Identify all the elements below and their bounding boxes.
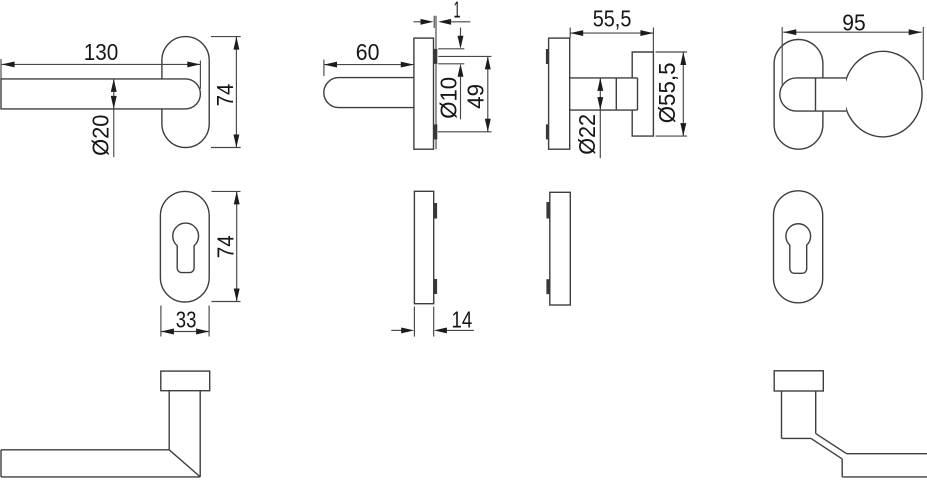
grip top edge fig10 — [847, 453, 927, 455]
rosette side rect fig7 — [550, 192, 571, 305]
lever side view fig2 — [324, 78, 414, 108]
grip left edge fig10 — [841, 459, 843, 477]
lever bar fig1 — [1, 79, 200, 109]
extension line 74 top fig5 — [212, 190, 241, 192]
knob neck fill fig4 — [780, 78, 846, 111]
svg-text:14: 14 — [452, 307, 473, 333]
arrowhead 74 down — [233, 135, 239, 148]
arrowhead d55,5 up — [680, 52, 686, 65]
dimension 1 left line — [414, 21, 422, 23]
lever bar bottom edge fig9 — [1, 476, 200, 478]
dimension line 49 — [487, 56, 489, 131]
neck left line fig9 — [168, 391, 170, 450]
arrowhead 74 fig5 up — [234, 191, 240, 204]
arrowhead 74 up — [233, 37, 239, 50]
svg-text:74: 74 — [212, 235, 238, 258]
svg-text:74: 74 — [212, 84, 238, 107]
dimension line 74 fig1 — [235, 37, 237, 148]
neck divider fig3 — [615, 78, 617, 110]
dimension line diameter 20 — [113, 79, 115, 157]
arrowhead 49 up — [485, 56, 491, 69]
rosette top rect fig9 — [161, 371, 210, 391]
svg-text:49: 49 — [462, 84, 488, 109]
neck right line fig9 — [199, 391, 201, 477]
screw tab fig2 top — [434, 49, 438, 64]
knob neck bottom line fig3 — [570, 109, 638, 111]
d10 upper arrow shaft — [460, 28, 462, 37]
svg-text:95: 95 — [842, 10, 865, 36]
dimension 14 right line — [447, 329, 474, 331]
extension line right of dim 130 — [199, 61, 201, 89]
extension line d10 bottom — [438, 63, 464, 65]
neck right line fig10 — [815, 391, 817, 434]
arrowhead d10 up — [458, 64, 464, 77]
screw tab fig6 bottom — [434, 279, 437, 294]
arrowhead 74 fig5 down — [234, 289, 240, 302]
extension line for dim 1 — [433, 16, 435, 28]
extension line bottom of dim 74 fig1 — [211, 147, 241, 149]
extension line left dim 60 — [323, 60, 325, 77]
grip bottom edge fig10 — [842, 476, 927, 478]
arrowhead 1 right — [438, 19, 451, 25]
screw tab fig3 bottom — [546, 124, 549, 139]
neck left line fig10 — [781, 391, 783, 438]
arrowhead d22 down — [597, 97, 603, 110]
svg-text:Ø55,5: Ø55,5 — [654, 63, 680, 124]
arrowhead 33 left — [161, 329, 174, 335]
rosette side rect fig3 — [549, 38, 570, 149]
extension line d55,5 top — [656, 51, 688, 53]
extension line 33 left — [160, 306, 162, 337]
arrowhead 95 right — [909, 29, 922, 35]
dimension line 130 — [2, 63, 201, 65]
arrowhead 55,5 left — [570, 30, 583, 36]
rosette side rect fig6 — [414, 191, 433, 303]
escutcheon oval fig5 — [160, 191, 209, 302]
extension line 95 left — [781, 27, 783, 85]
knob side rect fig3 — [632, 52, 653, 136]
rosette top rect fig10 — [774, 371, 823, 391]
arrowhead 1 left — [421, 19, 434, 25]
svg-text:1: 1 — [454, 0, 461, 22]
knob neck outline fig4 — [780, 78, 846, 111]
arrowhead 14 right — [434, 327, 447, 333]
arrowhead d20 up — [111, 79, 117, 92]
crank lower diagonal fig10 — [811, 438, 842, 459]
extension line 49 bottom — [438, 131, 492, 133]
dimension line 33 — [161, 331, 209, 333]
svg-text:Ø20: Ø20 — [88, 115, 114, 156]
rosette oval fig4 — [774, 40, 823, 150]
extension line 74 bottom fig5 — [212, 301, 241, 303]
arrowhead 55,5 right — [640, 30, 653, 36]
lever bar top edge fig9 — [1, 449, 169, 451]
extension line d55,5 bottom — [656, 135, 688, 137]
extension line 49 top — [438, 55, 491, 57]
dimension 14 left line — [391, 329, 401, 331]
arrowhead d10 down — [458, 36, 464, 49]
arrowhead 33 right — [196, 329, 209, 335]
dimension line 74 fig5 — [236, 191, 238, 301]
knob ball fig4 — [844, 51, 922, 137]
d10 lower arrow shaft — [460, 76, 462, 119]
svg-text:Ø10: Ø10 — [435, 77, 461, 119]
d22 dimension line — [599, 78, 601, 158]
dimension line 95 — [783, 31, 921, 33]
collar right edge fig3 — [637, 78, 639, 110]
arrowhead d55,5 down — [680, 123, 686, 136]
base plate line fig2 — [435, 16, 437, 149]
euro cylinder keyhole fig5 — [173, 223, 199, 272]
arrowhead d22 up — [597, 78, 603, 91]
svg-text:55,5: 55,5 — [593, 5, 632, 31]
lever bar left cap fig9 — [0, 450, 2, 477]
knob neck top line fig3 — [570, 77, 638, 79]
arrowhead 60 left — [324, 62, 337, 68]
extension line top of dim 74 fig1 — [211, 36, 241, 38]
extension line 55,5 right — [652, 28, 654, 53]
svg-text:60: 60 — [356, 39, 380, 65]
arrowhead 95 left — [783, 29, 796, 35]
screw tab fig2 bottom — [434, 124, 438, 139]
screw tab fig3 top — [546, 49, 549, 64]
rosette side rect fig2 — [414, 38, 434, 149]
extension line 55,5 left — [569, 28, 571, 39]
extension line 14 right — [433, 307, 435, 337]
dimension line 60 — [324, 64, 414, 66]
extension line 33 right — [208, 306, 210, 337]
svg-text:130: 130 — [84, 39, 119, 65]
arrowhead 14 left — [401, 327, 414, 333]
escutcheon oval fig8 — [774, 191, 823, 303]
arrowhead 49 down — [485, 119, 491, 132]
lever bend diagonal fig9 — [169, 450, 200, 477]
arrowhead 130 left — [2, 61, 15, 67]
svg-text:Ø22: Ø22 — [574, 114, 600, 155]
extension line left of dim 130 — [0, 59, 2, 79]
rosette oval fig1 — [162, 37, 209, 148]
screw tab fig7 bottom — [546, 279, 549, 294]
arrowhead 60 right — [401, 62, 414, 68]
extension line d10 top — [438, 48, 464, 50]
neck divider fig4 — [815, 78, 817, 111]
extension line 95 right — [922, 27, 924, 80]
extension line 14 left — [413, 307, 415, 337]
neck bottom line fig10 — [782, 437, 812, 439]
svg-text:33: 33 — [176, 307, 197, 333]
dimension 1 right line — [451, 21, 471, 23]
arrowhead 130 right — [187, 61, 200, 67]
euro cylinder keyhole fig8 — [786, 224, 811, 274]
dimension line d55,5 — [682, 52, 684, 136]
crank upper diagonal fig10 — [816, 434, 847, 454]
screw tab fig7 top — [546, 202, 549, 219]
screw tab fig6 top — [434, 203, 437, 219]
dimension line 55,5 — [570, 32, 653, 34]
arrowhead d20 down — [111, 96, 117, 109]
